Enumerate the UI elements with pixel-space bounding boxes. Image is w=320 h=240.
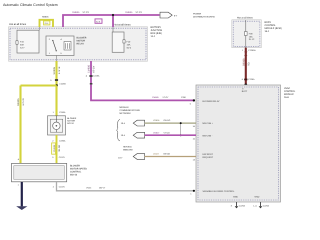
wire: module ground drop left <box>236 202 238 206</box>
pin 1 / connector C280A (motor top) <box>53 111 66 114</box>
svg-text:BATT: BATT <box>242 90 248 93</box>
wire: yellow left branch down to speed control <box>19 86 21 164</box>
label: BATTERY JUNCTION BOX (BJB) <box>151 26 163 38</box>
svg-text:MODULE: MODULE <box>120 106 130 109</box>
svg-text:5: 5 <box>50 79 52 82</box>
inline connector tick (yellow wire) <box>55 79 58 81</box>
svg-text:C229A: C229A <box>239 205 246 208</box>
svg-text:NETWORK: NETWORK <box>120 112 132 115</box>
wire: navy ground from speed control <box>21 182 23 206</box>
wire: purple CMB05 from BJB to module <box>91 61 194 100</box>
svg-text:VT-OG: VT-OG <box>164 131 171 134</box>
svg-text:VT-GY: VT-GY <box>83 11 90 14</box>
junction dot at module top <box>244 84 247 87</box>
svg-text:C228A: C228A <box>93 75 100 78</box>
svg-text:SJ-6: SJ-6 <box>127 47 132 50</box>
svg-text:VARIABLE BLOWER CONTROL: VARIABLE BLOWER CONTROL <box>203 190 236 193</box>
svg-text:15: 15 <box>193 137 196 140</box>
svg-text:SBB05: SBB05 <box>53 66 56 74</box>
link between CAN pair <box>180 123 182 135</box>
svg-text:MO-16: MO-16 <box>70 174 78 177</box>
svg-text:SJ-9: SJ-9 <box>96 20 100 23</box>
pin 8 / connector C229A (left ground) <box>231 205 246 208</box>
svg-text:40A: 40A <box>20 44 24 47</box>
svg-text:C2280A: C2280A <box>248 49 256 52</box>
svg-text:2: 2 <box>53 186 55 189</box>
inline connector tick (purple wire) <box>89 75 92 77</box>
svg-text:4: 4 <box>86 75 88 78</box>
svg-text:BOX (BJB): BOX (BJB) <box>151 32 162 35</box>
junction dot at module edge <box>193 99 195 101</box>
label: VDB07 VT-OG <box>153 131 170 134</box>
label: BLOWER MOTOR MO-10 <box>67 117 77 125</box>
svg-text:GN-VT: GN-VT <box>99 187 106 190</box>
svg-text:SJ-1: SJ-1 <box>45 22 49 25</box>
svg-text:YE-OG: YE-OG <box>58 144 61 151</box>
svg-text:SBB05: SBB05 <box>17 98 20 106</box>
label: MODULE COMMUNICATIONS NETWORK <box>120 106 141 115</box>
wire: module ground drop right <box>260 202 262 206</box>
label: POWER DISTRIBUTION VIEW <box>193 12 216 18</box>
svg-text:C1075: C1075 <box>59 156 66 159</box>
wire: purple CMB05 bracket and feed to S-7 <box>63 14 160 27</box>
svg-text:RELAY: RELAY <box>77 43 85 46</box>
off-page connector arrow (CAN+) <box>133 120 144 126</box>
ground symbol left <box>235 206 239 208</box>
label: HEATED WINDOW <box>123 146 134 152</box>
svg-text:VDB07: VDB07 <box>153 131 160 134</box>
svg-text:C228A: C228A <box>248 78 255 81</box>
svg-text:16-7: 16-7 <box>118 156 123 159</box>
svg-text:CONTROL: CONTROL <box>284 90 296 93</box>
svg-text:C1075: C1075 <box>59 186 66 189</box>
inline connector tick 2 (purple wire) <box>90 83 93 85</box>
svg-text:GND: GND <box>233 196 238 199</box>
svg-text:2: 2 <box>52 139 54 142</box>
label: SBB05 YE (rotated, right drop) <box>53 66 61 74</box>
svg-text:Automatic Climate Control Syst: Automatic Climate Control System <box>3 3 58 7</box>
blower motor speed control box <box>12 163 67 181</box>
svg-text:10A: 10A <box>249 35 253 38</box>
fuse F15 40A <box>16 30 39 53</box>
svg-text:CMB05: CMB05 <box>125 11 133 14</box>
svg-text:C229A: C229A <box>263 205 270 208</box>
label: BODY CONTROL MODULE (BCM) <box>265 21 282 33</box>
svg-text:0.75 YE: 0.75 YE <box>58 66 61 74</box>
wire: 13023 BN-OG (defrost request) <box>145 156 196 158</box>
svg-text:5: 5 <box>190 103 192 106</box>
blower motor M <box>48 116 66 135</box>
svg-text:VT-GY: VT-GY <box>163 96 170 99</box>
battery junction box BJB (dashed) <box>9 27 148 61</box>
label: SBB38 RD (rotated) <box>242 58 250 66</box>
svg-text:SBB05: SBB05 <box>42 16 49 19</box>
label: CMB05 VT-GY (right) <box>125 11 143 14</box>
label: BLOWER MOTOR SPEED CONTROL <box>70 165 87 177</box>
pin 6 / connector C228A (red wire) <box>242 78 255 81</box>
label: CLN36 YE-OG (rotated) <box>53 144 61 152</box>
svg-text:HVAC: HVAC <box>284 87 291 90</box>
wire: dark red SBB38 from BCM to module <box>245 48 247 85</box>
svg-text:C290: C290 <box>181 96 187 99</box>
ground symbol (navy wire) <box>16 206 27 210</box>
label: CMB05 VT-GY (left) <box>72 11 90 14</box>
svg-text:1, 4: 1, 4 <box>253 205 257 208</box>
junction dot (CAN-) <box>180 134 182 136</box>
svg-text:Hot at all times: Hot at all times <box>114 24 132 27</box>
relay: blower motor relay <box>46 36 74 56</box>
svg-text:16-4: 16-4 <box>121 122 126 125</box>
junction dot (blower control entry) <box>193 190 195 192</box>
svg-text:MODULE: MODULE <box>284 93 294 96</box>
svg-text:GN-OG: GN-OG <box>164 119 171 122</box>
svg-text:BODY: BODY <box>265 21 272 24</box>
pin 5 / connector C1075 (speed control top) <box>52 156 65 159</box>
svg-text:C280A: C280A <box>59 111 66 114</box>
brace (CAN pair) <box>116 120 120 141</box>
HVAC module box <box>196 85 281 202</box>
svg-text:WINDOW: WINDOW <box>123 149 134 152</box>
label: VDB06 GN-OG <box>153 119 171 122</box>
label: BLOWER MOTOR RELAY <box>77 37 87 46</box>
svg-text:VDB06: VDB06 <box>153 119 160 122</box>
off-page connector arrow (CAN-) <box>133 132 144 138</box>
svg-text:13: 13 <box>193 159 196 162</box>
label: 13023 BN-OG <box>153 153 171 156</box>
svg-text:CMB05: CMB05 <box>72 11 80 14</box>
pin 1 / connector C2280A (below BCM) <box>242 49 256 52</box>
svg-text:CMB05: CMB05 <box>87 64 90 73</box>
svg-text:DEFROST: DEFROST <box>203 153 214 156</box>
off-page connector arrow (defrost) <box>133 154 144 160</box>
svg-text:C280A: C280A <box>59 139 66 142</box>
svg-text:MS-CAN -: MS-CAN - <box>203 134 213 137</box>
svg-text:GND: GND <box>255 196 260 199</box>
junction dot (CAN+) <box>180 122 182 124</box>
label: SBB05 YE (rotated, left drop) <box>17 98 25 106</box>
svg-text:BLOWER RELAY: BLOWER RELAY <box>203 100 221 103</box>
svg-text:CMB05: CMB05 <box>152 96 160 99</box>
wire: VDB07 VT-OG (MS-CAN-) <box>145 134 196 136</box>
svg-text:RD: RD <box>248 62 251 66</box>
pin 1,4 / connector C229A (right ground) <box>253 205 269 208</box>
inline connector symbol (red wire) <box>244 52 247 56</box>
wire: VDB06 GN-OG (MS-CAN+) <box>145 122 196 124</box>
svg-text:POWER: POWER <box>193 12 202 15</box>
svg-text:MS-CAN +: MS-CAN + <box>203 122 214 125</box>
svg-text:CONTROL: CONTROL <box>70 171 82 174</box>
body control module BCM (dashed) <box>232 20 261 48</box>
svg-text:14-1: 14-1 <box>151 35 156 38</box>
inline connector tick (red wire) <box>244 79 247 81</box>
svg-text:15A: 15A <box>127 44 131 47</box>
svg-text:VM05: VM05 <box>86 187 92 190</box>
svg-text:6: 6 <box>242 78 244 81</box>
svg-text:1: 1 <box>242 49 244 52</box>
svg-text:8: 8 <box>231 205 233 208</box>
svg-text:16-4: 16-4 <box>121 134 126 137</box>
wire: yellow horizontal branch <box>21 84 57 86</box>
svg-text:MODULE (BCM): MODULE (BCM) <box>265 27 282 30</box>
svg-text:SJ-7: SJ-7 <box>20 47 25 50</box>
wire: yellow SBB05 from BJB down to splice <box>55 61 57 86</box>
svg-text:16: 16 <box>193 125 196 128</box>
svg-text:COMMUNICATIONS: COMMUNICATIONS <box>120 109 141 112</box>
wire: yellow CLN36 motor to speed control <box>56 135 58 163</box>
off-page connector arrow S-7 <box>160 12 178 18</box>
svg-text:1: 1 <box>53 111 55 114</box>
svg-text:JUNCTION: JUNCTION <box>151 29 163 32</box>
svg-text:REQUEST: REQUEST <box>203 156 214 159</box>
svg-text:VT-GY: VT-GY <box>93 65 96 73</box>
svg-text:Hot at all times: Hot at all times <box>237 17 254 20</box>
ground symbol right <box>259 206 263 208</box>
fuse F10 15A <box>112 27 132 52</box>
svg-text:MOTOR: MOTOR <box>77 40 86 43</box>
wire: yellow SBB05 bracket over BJB top <box>40 20 54 27</box>
label: CMB05 VT-GY (rotated) <box>87 64 95 73</box>
svg-text:16-1: 16-1 <box>265 30 270 33</box>
svg-text:16-8: 16-8 <box>284 96 289 99</box>
wire: yellow drop from splice to blower motor <box>55 86 57 116</box>
svg-text:MOTOR SPEED: MOTOR SPEED <box>70 168 87 171</box>
svg-text:5: 5 <box>52 156 54 159</box>
svg-text:1: 1 <box>18 183 20 186</box>
svg-text:C228B: C228B <box>60 83 67 86</box>
svg-text:BATTERY: BATTERY <box>151 26 162 29</box>
svg-text:BLOWER: BLOWER <box>67 117 77 120</box>
svg-text:HEATED: HEATED <box>123 146 132 149</box>
label box: CLN36 (yellow) <box>52 143 56 154</box>
svg-text:Hot at all times: Hot at all times <box>9 23 27 26</box>
wire: internal BJB lead (relay pin 5) <box>56 56 58 62</box>
label: CMB05 VT-GY (horizontal run) <box>152 96 169 99</box>
svg-text:DISTRIBUTION VIEW: DISTRIBUTION VIEW <box>193 15 216 18</box>
svg-text:SJ-12: SJ-12 <box>249 38 255 41</box>
svg-text:BLOWER: BLOWER <box>77 37 87 40</box>
svg-text:1: 1 <box>190 193 192 196</box>
svg-text:BN-OG: BN-OG <box>164 153 171 156</box>
label: HVAC CONTROL MODULE (right of box) <box>284 87 296 99</box>
wire: VM05 GN-VT blower control signal <box>57 182 194 191</box>
splice S228 <box>55 84 58 87</box>
svg-text:CONTROL: CONTROL <box>265 24 277 27</box>
svg-text:CLN36: CLN36 <box>53 144 56 152</box>
fuse F38 10A inside BCM <box>245 20 256 48</box>
pin 2 / connector C280A (motor bottom) <box>52 139 66 142</box>
svg-text:VT-GY: VT-GY <box>136 11 143 14</box>
svg-text:SBB38: SBB38 <box>242 58 245 66</box>
svg-text:9-7: 9-7 <box>174 15 178 18</box>
svg-text:MOTOR: MOTOR <box>67 120 75 123</box>
label: VM05 GN-VT <box>86 187 106 190</box>
svg-text:13023: 13023 <box>153 153 159 156</box>
pin 2 / connector C1075 (speed control bottom right) <box>53 186 66 189</box>
svg-text:BLOWER: BLOWER <box>70 165 80 168</box>
svg-text:MO-10: MO-10 <box>67 122 74 125</box>
pin 4 / connector C228A (purple) <box>86 75 100 78</box>
wire: internal BJB lead (fuse F15 top) <box>39 27 41 30</box>
svg-text:0.75 YE: 0.75 YE <box>22 98 25 106</box>
